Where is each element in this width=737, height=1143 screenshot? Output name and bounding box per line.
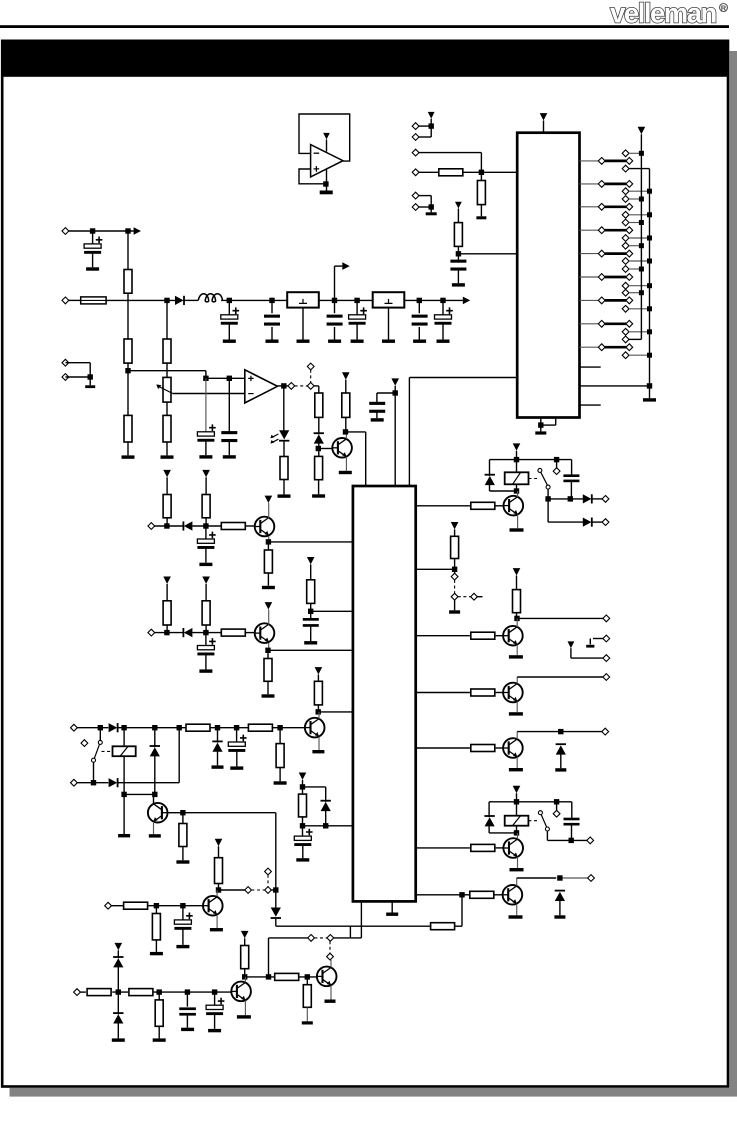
svg-text:velleman: velleman	[610, 0, 716, 29]
svg-text:R: R	[721, 3, 727, 12]
